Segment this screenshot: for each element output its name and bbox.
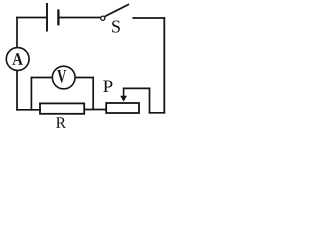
- wire bottom-left horizontal: [16, 109, 41, 111]
- wire right rail down: [163, 17, 165, 113]
- wire left rail bottom: [16, 70, 18, 110]
- wire R to P: [84, 109, 107, 111]
- ammeter letter A: [12, 53, 22, 64]
- wire left rail top: [16, 17, 18, 48]
- wire wiper riser: [149, 88, 151, 114]
- ammeter A circle: [6, 48, 29, 71]
- label R: [56, 117, 66, 128]
- battery long plate: [46, 3, 48, 32]
- wire battery to switch: [58, 17, 100, 19]
- wire V branch left horizontal: [31, 77, 53, 79]
- wire wiper horizontal: [123, 87, 151, 89]
- voltmeter V circle: [52, 66, 75, 89]
- wire V branch riser right: [92, 77, 94, 111]
- wire V branch right horizontal: [75, 77, 94, 79]
- rheostat arrow stem: [123, 88, 125, 97]
- voltmeter letter V: [57, 70, 66, 83]
- battery short plate: [57, 9, 59, 25]
- rheostat arrowhead: [120, 96, 127, 102]
- wire switch to top-right corner: [132, 17, 165, 19]
- wire bottom-right horizontal: [149, 112, 165, 114]
- switch pivot circle: [101, 16, 105, 20]
- rheostat P body rect: [106, 103, 139, 113]
- switch blade: [105, 4, 129, 16]
- label P: [103, 81, 112, 93]
- label S: [112, 21, 120, 33]
- resistor R body rect: [40, 103, 84, 113]
- wire top-left horizontal: [16, 17, 46, 19]
- wire V branch riser left: [30, 77, 32, 111]
